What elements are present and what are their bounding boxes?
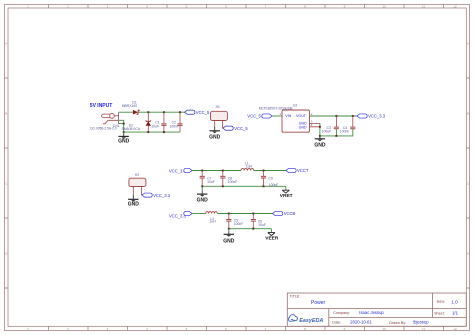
ground (bottom filter) [223, 229, 235, 245]
wire to L2 [192, 213, 206, 215]
junction [228, 228, 230, 230]
net port VRET [280, 186, 293, 199]
net flag VCCT [286, 168, 309, 173]
junction [163, 111, 165, 113]
svg-text:5V INPUT: 5V INPUT [90, 103, 113, 109]
junction [179, 111, 181, 113]
junction [335, 115, 337, 117]
ground (H2) [128, 195, 140, 208]
junction [201, 170, 203, 172]
junction [263, 170, 265, 172]
TVS diode D2 SMAJ5.0CA [122, 112, 152, 132]
svg-text:GND: GND [118, 138, 130, 144]
svg-text:10uF: 10uF [151, 125, 159, 129]
svg-text:VCC_5: VCC_5 [234, 126, 248, 131]
net flag VCC_3.3 (top filter) [169, 168, 192, 173]
GND pins 3,4 [310, 123, 320, 126]
svg-text:VCC_3.3: VCC_3.3 [153, 193, 171, 198]
junction [319, 126, 321, 128]
svg-text:REV:: REV: [437, 300, 445, 304]
svg-text:MBRX160: MBRX160 [122, 104, 138, 108]
svg-text:H2: H2 [135, 173, 139, 177]
svg-text:Power: Power [311, 300, 326, 306]
capacitor C8 100nF [220, 171, 237, 187]
svg-text:VOUT: VOUT [296, 114, 307, 118]
svg-text:VCCB: VCCB [284, 211, 296, 216]
svg-text:A: A [467, 42, 469, 46]
capacitor C6 10uF [251, 214, 266, 229]
ground (top filter) [197, 186, 209, 203]
svg-text:Isaac Jessup: Isaac Jessup [359, 310, 384, 315]
capacitor C1 10uF [151, 112, 166, 132]
ground (U2) [314, 137, 326, 148]
wire L1 to VCCT [254, 170, 286, 172]
svg-text:10uF: 10uF [207, 180, 215, 184]
svg-text:ibjessup: ibjessup [413, 320, 429, 325]
ground (input) [118, 132, 130, 144]
net flag VCC_3.3 (H2) [142, 193, 171, 198]
svg-text:10: 10 [382, 4, 386, 8]
svg-text:GND: GND [299, 125, 307, 129]
junction [147, 131, 149, 133]
svg-text:10: 10 [382, 327, 386, 331]
svg-text:U2: U2 [293, 104, 297, 108]
wire VOUT, pin 2 [310, 115, 357, 117]
gnd vertical wire [319, 123, 321, 138]
svg-text:1uH: 1uH [209, 220, 216, 224]
header H1 [211, 105, 228, 128]
junction [252, 213, 254, 215]
svg-text:10uF: 10uF [258, 223, 266, 227]
svg-text:C9: C9 [268, 177, 272, 181]
svg-text:100nF: 100nF [170, 125, 180, 129]
wire D1 to VCC_5 flag [138, 111, 185, 113]
svg-text:VCC_3.3: VCC_3.3 [368, 114, 386, 119]
junction [163, 131, 165, 133]
net flag VCCB [273, 211, 296, 216]
capacitor C4 100nF [340, 116, 356, 133]
svg-text:GND: GND [209, 135, 221, 141]
svg-text:Company:: Company: [333, 311, 350, 315]
top filter ground rail [202, 185, 286, 187]
net flag VCC_5 (U2 in) [247, 114, 272, 119]
svg-text:VCC_5: VCC_5 [196, 110, 210, 115]
bottom filter ground rail [229, 228, 272, 230]
svg-text:Sheet:: Sheet: [434, 311, 445, 315]
wire to L1 [192, 170, 241, 172]
inductor L2 1uH [206, 212, 218, 224]
svg-text:2020-10-01: 2020-10-01 [350, 320, 372, 325]
junction [335, 135, 337, 137]
svg-text:12: 12 [453, 327, 457, 331]
svg-text:H1: H1 [216, 105, 220, 109]
net flag VCC_5 (H1) [223, 126, 248, 131]
svg-text:GND: GND [223, 239, 235, 245]
svg-text:TITLE:: TITLE: [289, 295, 300, 299]
junction [222, 185, 224, 187]
capacitor C2 100nF [170, 112, 183, 132]
svg-text:B: B [467, 112, 469, 116]
wire flag to VIN, pin 1 [272, 115, 282, 117]
junction [228, 213, 230, 215]
svg-text:DC-005B-2.5A-2.0: DC-005B-2.5A-2.0 [90, 127, 116, 131]
capacitor C9 100nF [261, 171, 278, 188]
connector CN1 barrel jack [102, 112, 121, 124]
svg-text:VEER: VEER [265, 235, 279, 241]
header H2 [129, 173, 146, 195]
gnd bottom rail [320, 129, 353, 136]
regulator U2 MCP1825ST-3302E/DB [259, 104, 310, 133]
svg-text:VCCT: VCCT [297, 168, 309, 173]
net port VEER [265, 229, 279, 242]
diode D1 MBRX160 [122, 101, 140, 115]
net flag VCC_5 (input rail) [185, 110, 210, 115]
svg-text:EasyEDA: EasyEDA [299, 318, 323, 324]
junction [222, 170, 224, 172]
junction [123, 131, 125, 133]
svg-text:GND: GND [314, 142, 326, 148]
svg-text:100nF: 100nF [340, 129, 350, 133]
ground (H1) [209, 127, 221, 141]
svg-text:100nF: 100nF [234, 222, 244, 226]
svg-text:100uF: 100uF [322, 129, 332, 133]
svg-text:B: B [5, 112, 7, 116]
junction [123, 123, 125, 125]
net flag VCC_3.3 (U2 out) [357, 114, 386, 119]
junction [352, 115, 354, 117]
wire jack sleeve to gnd node [119, 120, 124, 132]
capacitor C7 10uF [200, 171, 215, 187]
net flag VCC_3.3 (bottom filter) [169, 211, 192, 218]
capacitor C5 100nF [226, 214, 243, 229]
svg-text:GND: GND [128, 202, 140, 208]
svg-text:Date:: Date: [332, 320, 341, 324]
junction [319, 135, 321, 137]
svg-text:Drawn By:: Drawn By: [389, 321, 406, 325]
svg-text:VCC_5: VCC_5 [247, 114, 261, 119]
EasyEDA logo [288, 315, 323, 324]
inductor L1 1uH [241, 161, 254, 170]
svg-text:11: 11 [422, 327, 425, 331]
input section ground rail [124, 131, 180, 133]
svg-text:1uH: 1uH [246, 165, 253, 169]
wire L2 to VCCB [217, 213, 272, 215]
junction [252, 228, 254, 230]
svg-text:1.0: 1.0 [451, 299, 458, 304]
junction [147, 111, 149, 113]
svg-text:GND: GND [197, 198, 209, 204]
svg-text:11: 11 [422, 4, 425, 8]
junction [201, 185, 203, 187]
junction [263, 185, 265, 187]
svg-text:A: A [5, 42, 7, 46]
svg-text:SMAJ5.0CA: SMAJ5.0CA [122, 127, 141, 131]
capacitor C3 100uF [322, 116, 339, 133]
svg-text:VIN: VIN [285, 114, 291, 118]
svg-text:VRET: VRET [280, 193, 293, 199]
svg-text:12: 12 [453, 4, 457, 8]
svg-text:1/1: 1/1 [452, 311, 458, 316]
svg-text:100nF: 100nF [228, 180, 238, 184]
wire jack to D1 [119, 111, 133, 113]
